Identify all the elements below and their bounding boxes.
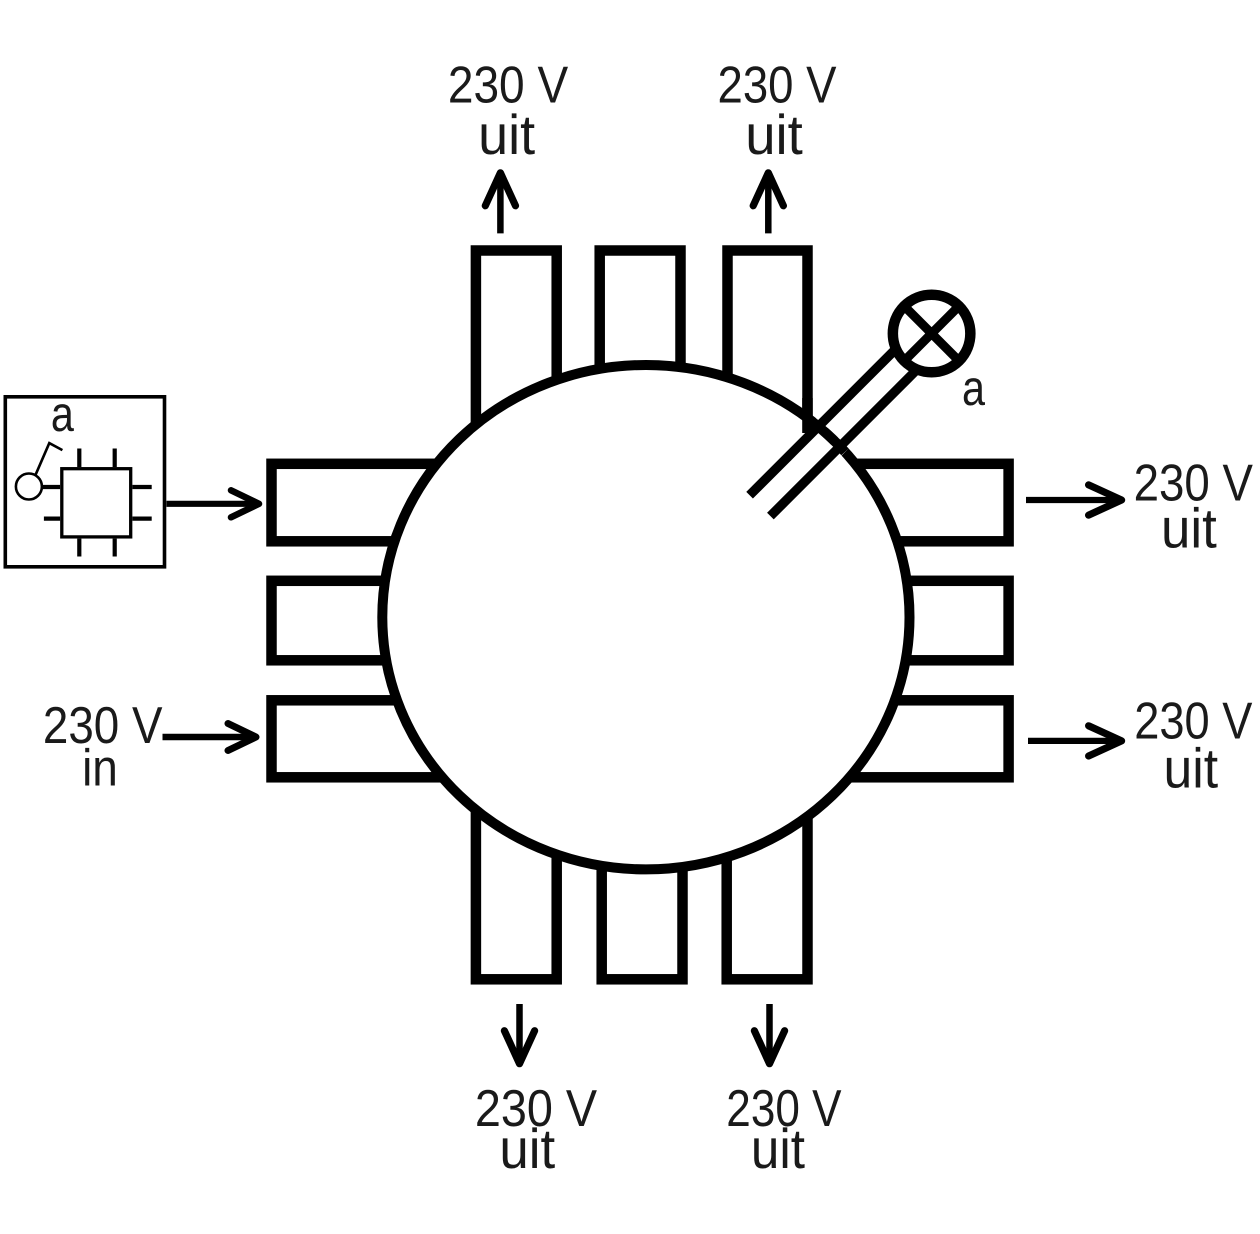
chip square [62,469,131,537]
arrow right-bottom out [1028,726,1122,756]
terminal stub R3 (right-bottom) [735,700,1009,777]
svg-text:uit: uit [751,1117,805,1180]
arrow right-top out [1026,485,1122,515]
wire switch circle to chip [41,485,60,489]
svg-text:uit: uit [499,1117,555,1180]
terminal stub B3 (bottom-right) [727,735,808,979]
chip pin top 2 [113,449,117,468]
arrow down bottom-left [504,1004,534,1064]
terminal stub T3 (top-right) [728,251,808,521]
chip pin bottom 1 [77,539,81,557]
svg-text:uit: uit [1161,496,1217,559]
junction box circle [382,365,909,869]
wire to lamp: white casing of lower line [770,364,922,516]
wire to lamp: lower line [770,364,922,516]
terminal stub R2 (right-middle) [735,581,1009,661]
chip pin top 1 [77,449,81,468]
junction patch: T3 right edge meets upper wire [802,398,813,433]
terminal stub L3 (left-bottom) [272,700,550,777]
svg-text:uit: uit [478,103,535,166]
chip pin right 1 [132,485,151,489]
svg-text:uit: uit [1164,736,1219,799]
chip pin left lower [44,516,60,520]
svg-text:uit: uit [745,103,803,166]
svg-text:a: a [51,386,74,442]
arrow up top-right [753,173,783,234]
svg-text:a: a [962,360,985,416]
terminal stub L1 (left-top) [272,464,550,542]
arrow 230V in (into L3) [163,724,257,751]
wire to lamp: upper line [750,326,920,496]
terminal stub L2 (left-middle) [272,581,550,661]
switch module box [5,397,164,567]
arrow down bottom-right [754,1004,784,1064]
terminal stub B2 (bottom-middle) [602,735,683,979]
lamp a: cross line 1 [904,306,959,361]
terminal stub R1 (right-top) [735,464,1009,542]
switch contact circle [16,474,42,500]
wire to lamp: white casing of upper line [750,326,920,496]
switch lever [35,443,62,475]
terminal stub B1 (bottom-left) [476,735,557,979]
svg-text:in: in [82,740,118,798]
chip pin bottom 2 [113,539,117,557]
arrow up top-left [485,173,515,234]
junction patch: circle arc segment between wires [809,419,845,452]
terminal stub T2 (top-middle) [600,251,681,521]
lamp a: cross line 2 [904,306,959,361]
chip pin right 2 [132,516,151,520]
arrow from switch box to L1 [167,490,260,517]
lamp a: circle [893,295,971,373]
terminal stub T1 (top-left) [476,251,557,521]
